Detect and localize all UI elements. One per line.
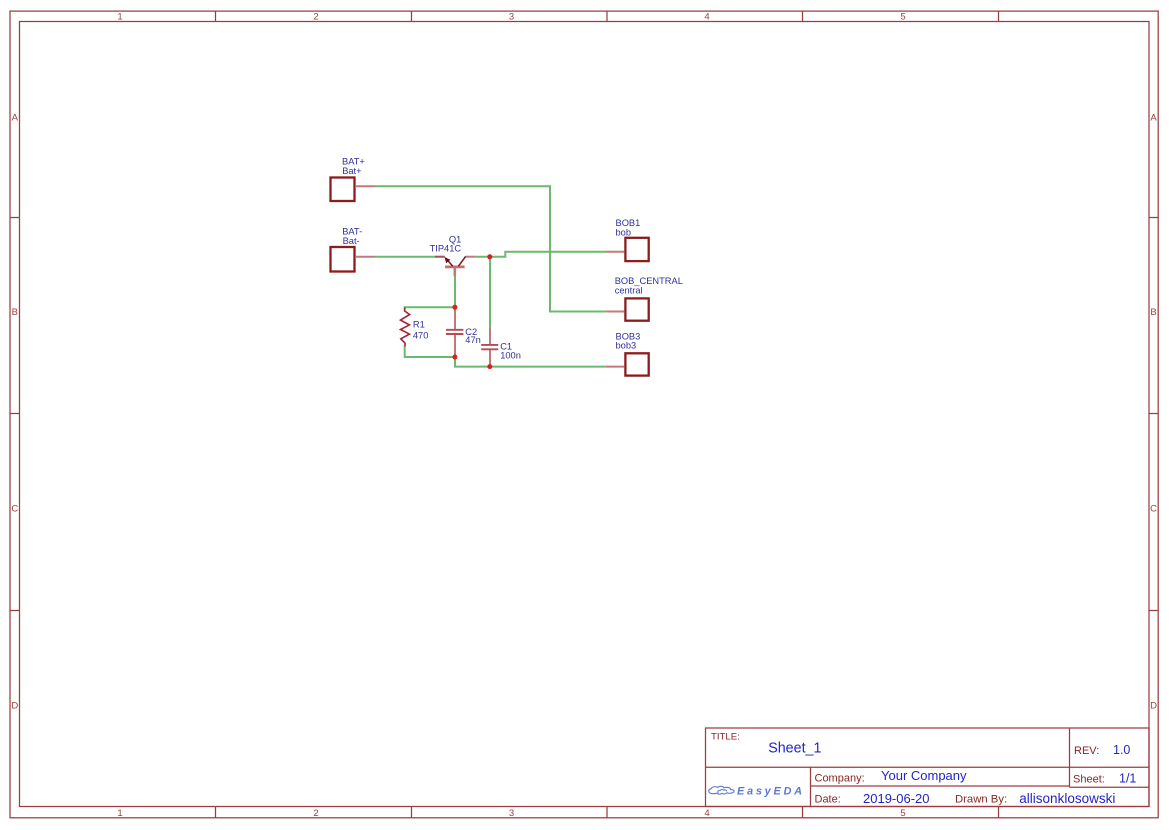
svg-text:C: C xyxy=(11,504,18,515)
pin C2 bottom xyxy=(454,334,456,357)
wire Q1 base down to node xyxy=(454,276,456,307)
wire BAT- to Q1 emitter xyxy=(375,256,435,258)
svg-text:2019-06-20: 2019-06-20 xyxy=(863,791,930,806)
label BAT- xyxy=(342,226,362,246)
port BOB1 xyxy=(625,238,648,261)
svg-text:bob: bob xyxy=(616,227,632,237)
junction node at Q1 collector xyxy=(487,254,492,259)
label BOB3 xyxy=(616,332,641,351)
transistor Q1 xyxy=(445,257,466,267)
junction node at C1 bottom xyxy=(487,364,492,369)
svg-text:D: D xyxy=(1150,701,1157,712)
wire junction to C1 top xyxy=(489,257,491,328)
pin BAT- xyxy=(356,256,375,258)
svg-text:4: 4 xyxy=(704,808,709,819)
svg-text:1.0: 1.0 xyxy=(1113,743,1130,757)
svg-text:allisonklosowski: allisonklosowski xyxy=(1019,791,1115,806)
pin C1 bottom xyxy=(489,349,491,366)
port BOB3 xyxy=(625,353,648,375)
pin BOB1 xyxy=(605,251,624,253)
wire R1 bottom to node xyxy=(405,346,455,358)
svg-text:1/1: 1/1 xyxy=(1119,771,1136,785)
wire bottom node to BOB3 xyxy=(455,357,605,367)
svg-text:Sheet:: Sheet: xyxy=(1073,773,1105,785)
label Q1 TIP41C xyxy=(430,234,462,253)
pin C2 top xyxy=(454,307,456,329)
pin Q1 collector xyxy=(465,256,475,258)
svg-text:REV:: REV: xyxy=(1074,745,1099,757)
wire Q1 collector to BOB1 with jog xyxy=(475,252,605,257)
svg-text:TITLE:: TITLE: xyxy=(711,732,740,743)
svg-text:Bat-: Bat- xyxy=(343,236,360,246)
svg-text:5: 5 xyxy=(900,12,905,23)
svg-text:1: 1 xyxy=(117,808,122,819)
capacitor C1 xyxy=(481,345,498,349)
port BOB_CENTRAL xyxy=(625,298,648,320)
svg-text:C: C xyxy=(1150,504,1157,515)
svg-text:2: 2 xyxy=(313,808,318,819)
svg-text:3: 3 xyxy=(509,12,514,23)
svg-text:BOB_CENTRAL: BOB_CENTRAL xyxy=(615,276,683,286)
wire node to R1 top xyxy=(405,307,455,309)
port BAT- xyxy=(331,247,355,272)
label BOB_CENTRAL xyxy=(615,276,683,296)
svg-text:A: A xyxy=(12,113,19,124)
svg-text:3: 3 xyxy=(509,808,514,819)
pin BOB3 xyxy=(605,366,624,368)
svg-text:Your Company: Your Company xyxy=(881,768,967,783)
svg-text:A: A xyxy=(1150,113,1157,124)
svg-text:1: 1 xyxy=(117,12,122,23)
svg-text:Bat+: Bat+ xyxy=(342,166,361,176)
svg-text:2: 2 xyxy=(313,12,318,23)
svg-text:470: 470 xyxy=(413,331,429,341)
svg-text:BAT+: BAT+ xyxy=(342,156,365,166)
wire BAT+ to BOB_CENTRAL xyxy=(375,186,605,311)
label BOB1 xyxy=(616,218,641,237)
svg-text:Date:: Date: xyxy=(815,794,841,806)
svg-text:TIP41C: TIP41C xyxy=(430,243,462,253)
port BAT+ xyxy=(331,178,355,202)
svg-text:D: D xyxy=(11,701,18,712)
label BAT+ xyxy=(342,156,365,176)
svg-text:BAT-: BAT- xyxy=(342,226,362,236)
label R1 470 xyxy=(413,319,429,340)
pin BAT+ xyxy=(356,185,375,187)
title block xyxy=(706,728,1150,807)
svg-text:Drawn By:: Drawn By: xyxy=(955,793,1007,805)
pin C1 top xyxy=(489,327,491,345)
junction node at R1/C2 top xyxy=(452,305,457,310)
svg-text:B: B xyxy=(1150,307,1156,318)
junction node at R1/C2 bottom xyxy=(452,355,457,360)
resistor R1 xyxy=(401,308,410,347)
svg-text:5: 5 xyxy=(900,808,905,819)
svg-text:Sheet_1: Sheet_1 xyxy=(768,740,821,756)
svg-text:Company:: Company: xyxy=(815,772,865,784)
svg-text:47n: 47n xyxy=(465,335,481,345)
svg-text:4: 4 xyxy=(704,12,709,23)
svg-text:bob3: bob3 xyxy=(616,341,637,351)
svg-text:R1: R1 xyxy=(413,319,425,329)
pin Q1 emitter xyxy=(435,256,445,258)
label C2 47n xyxy=(465,327,481,345)
svg-text:EasyEDA: EasyEDA xyxy=(737,785,805,797)
pin Q1 base xyxy=(453,267,456,276)
svg-text:B: B xyxy=(12,307,18,318)
label C1 100n xyxy=(500,342,521,361)
EasyEDA logo xyxy=(709,785,805,797)
svg-text:central: central xyxy=(615,286,643,296)
capacitor C2 xyxy=(446,330,463,334)
svg-text:100n: 100n xyxy=(500,351,521,361)
pin BOB_CENTRAL xyxy=(605,311,624,313)
